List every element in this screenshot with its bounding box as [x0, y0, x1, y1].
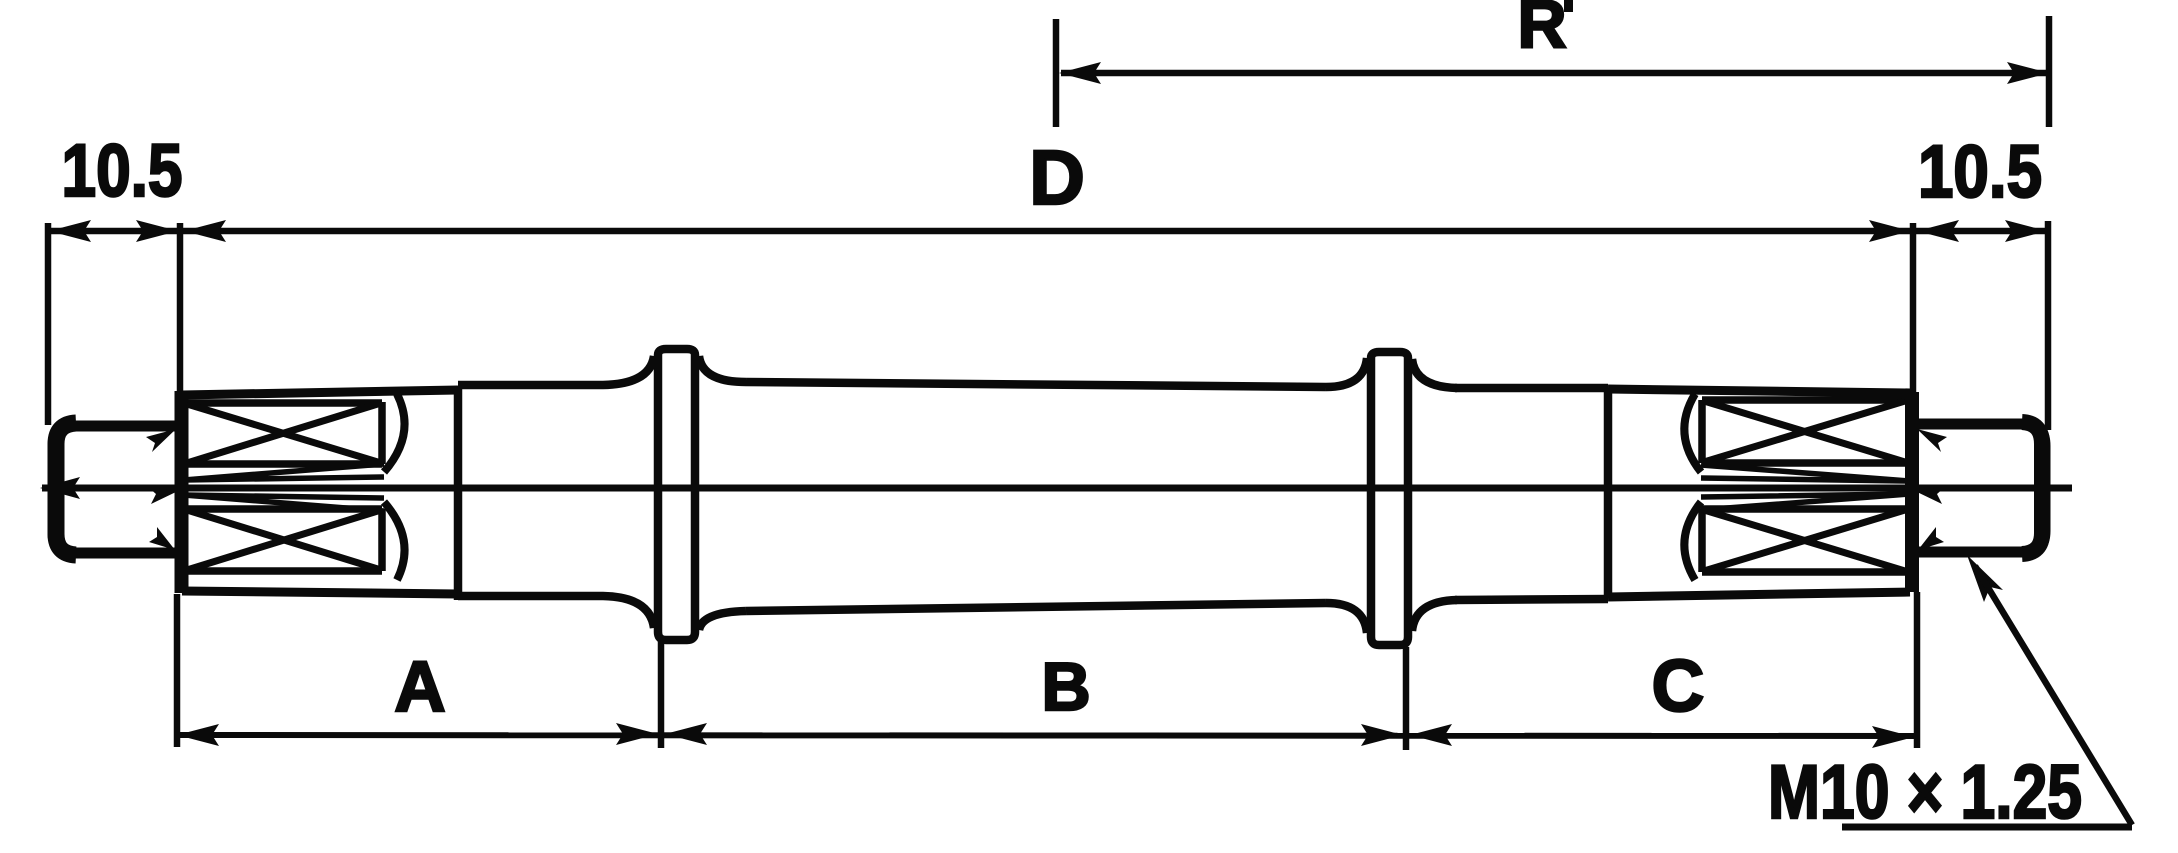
svg-text:R: R — [1517, 0, 1566, 62]
left stub chamfer arrow mid — [148, 487, 178, 504]
extension line below left taper face — [174, 594, 181, 747]
arrowhead 10.5 left inner right-pointing — [136, 220, 178, 242]
arrowhead D far-left — [49, 220, 91, 242]
right shoulder vertical — [1604, 388, 1613, 598]
svg-text:B: B — [1041, 649, 1090, 725]
right stub chamfer arrow mid — [1915, 487, 1945, 504]
left flange — [658, 349, 695, 640]
svg-text:10.5: 10.5 — [62, 129, 183, 212]
right stub outline — [1917, 424, 2045, 552]
left cone top profile — [182, 390, 458, 395]
right flange — [1371, 352, 1408, 645]
dimension line A B C — [176, 735, 1915, 736]
extension line for R' right end — [2046, 16, 2053, 127]
arrowhead A left — [177, 724, 219, 746]
left upper taper box — [186, 402, 382, 464]
left taper face line — [175, 391, 189, 593]
right stub chamfer arrow top — [1917, 429, 1947, 452]
dimension line D overall — [48, 228, 2048, 235]
apostrophe of R' — [1564, 0, 1573, 12]
arrowhead A right — [616, 723, 658, 745]
left shoulder vertical — [454, 386, 463, 600]
right upper bearing arc — [1684, 394, 1701, 472]
extension line right taper face x=1913 — [1910, 223, 1917, 392]
extension line left taper face x=180 — [177, 223, 184, 392]
M10 leader underline — [1842, 824, 2132, 831]
right stub chamfer arrow bottom — [1918, 527, 1944, 550]
left upper box X diagonal 2 — [187, 403, 381, 463]
arrowhead R' left — [1059, 62, 1101, 84]
left shoulder bottom edge with fillet to flange — [458, 596, 654, 628]
fillet left of right flange bottom — [1326, 603, 1367, 633]
svg-text:A: A — [394, 648, 445, 727]
M10 leader diagonal — [1975, 566, 2132, 825]
arrowhead D far-right — [2005, 220, 2047, 242]
left lower bearing arc — [384, 502, 405, 580]
right cone top profile — [1608, 389, 1910, 393]
svg-text:D: D — [1029, 135, 1085, 221]
extension line below right taper face — [1914, 592, 1921, 748]
left stub thick end bracket — [56, 423, 76, 555]
right taper edge fan lower — [1701, 494, 1909, 510]
center shaft top edge — [746, 382, 1326, 387]
right lower bearing arc — [1684, 502, 1701, 580]
fillet right of right flange top — [1412, 359, 1457, 388]
right taper face line — [1905, 392, 1919, 592]
arrowhead 10.5 right inner left-pointing — [1917, 220, 1959, 242]
arrowhead R' right — [2007, 62, 2049, 84]
svg-text:10.5: 10.5 — [1918, 130, 2042, 213]
fillet left of right flange top — [1326, 358, 1367, 387]
right shoulder bottom edge — [1455, 599, 1608, 600]
extension line for R' at axle mid — [1053, 19, 1060, 127]
svg-text:C: C — [1652, 646, 1705, 727]
left taper edge fan upper — [184, 464, 384, 480]
right shoulder top edge — [1455, 384, 1608, 393]
left lower box X diagonal 1 — [187, 510, 381, 570]
arrowhead B right — [1361, 724, 1403, 746]
arrowhead right bowtie right-pointing — [1869, 220, 1911, 242]
left shoulder top edge with fillet to flange — [458, 356, 654, 385]
left lower taper box — [186, 509, 382, 571]
centerline left arrowhead — [40, 477, 80, 499]
right upper box X diagonal 2 — [1704, 401, 1905, 462]
left stub outline — [53, 426, 178, 553]
center shaft bottom edge — [746, 603, 1326, 611]
extension line left end x=48 — [45, 223, 52, 425]
dimension line R' — [1061, 70, 2047, 77]
left cone bottom profile — [182, 591, 458, 594]
left stub chamfer arrow top — [146, 429, 176, 452]
extension line right end x=2048 — [2045, 221, 2052, 430]
right lower taper box — [1702, 509, 1907, 572]
arrowhead C left — [1410, 724, 1452, 746]
arrowhead left bowtie left-pointing — [184, 220, 226, 242]
right lower box X diagonal 2 — [1704, 510, 1905, 571]
right upper taper box — [1702, 400, 1907, 463]
extension line below left flange — [658, 641, 665, 748]
left stub chamfer arrow bottom — [149, 527, 175, 550]
right stub thick end bracket — [2022, 422, 2042, 554]
centerline of axle — [42, 485, 2072, 492]
fillet right of right flange bottom — [1412, 600, 1457, 631]
extension line below right flange — [1403, 647, 1410, 750]
svg-text:M10 × 1.25: M10 × 1.25 — [1768, 750, 2082, 835]
fillet right of left flange bottom — [699, 611, 746, 630]
left lower box X diagonal 2 — [187, 510, 381, 570]
arrowhead B left — [665, 723, 707, 745]
left upper bearing arc — [384, 394, 405, 472]
left taper edge fan lower — [184, 495, 384, 511]
M10 leader arrowhead — [1967, 555, 2003, 602]
right cone bottom profile — [1608, 592, 1910, 597]
right lower box X diagonal 1 — [1704, 510, 1905, 571]
right taper edge fan upper — [1701, 465, 1909, 481]
arrowhead C right — [1872, 726, 1914, 748]
left upper box X diagonal 1 — [187, 404, 381, 463]
right upper box X diagonal 1 — [1704, 401, 1905, 462]
fillet right of left flange top — [699, 356, 746, 382]
